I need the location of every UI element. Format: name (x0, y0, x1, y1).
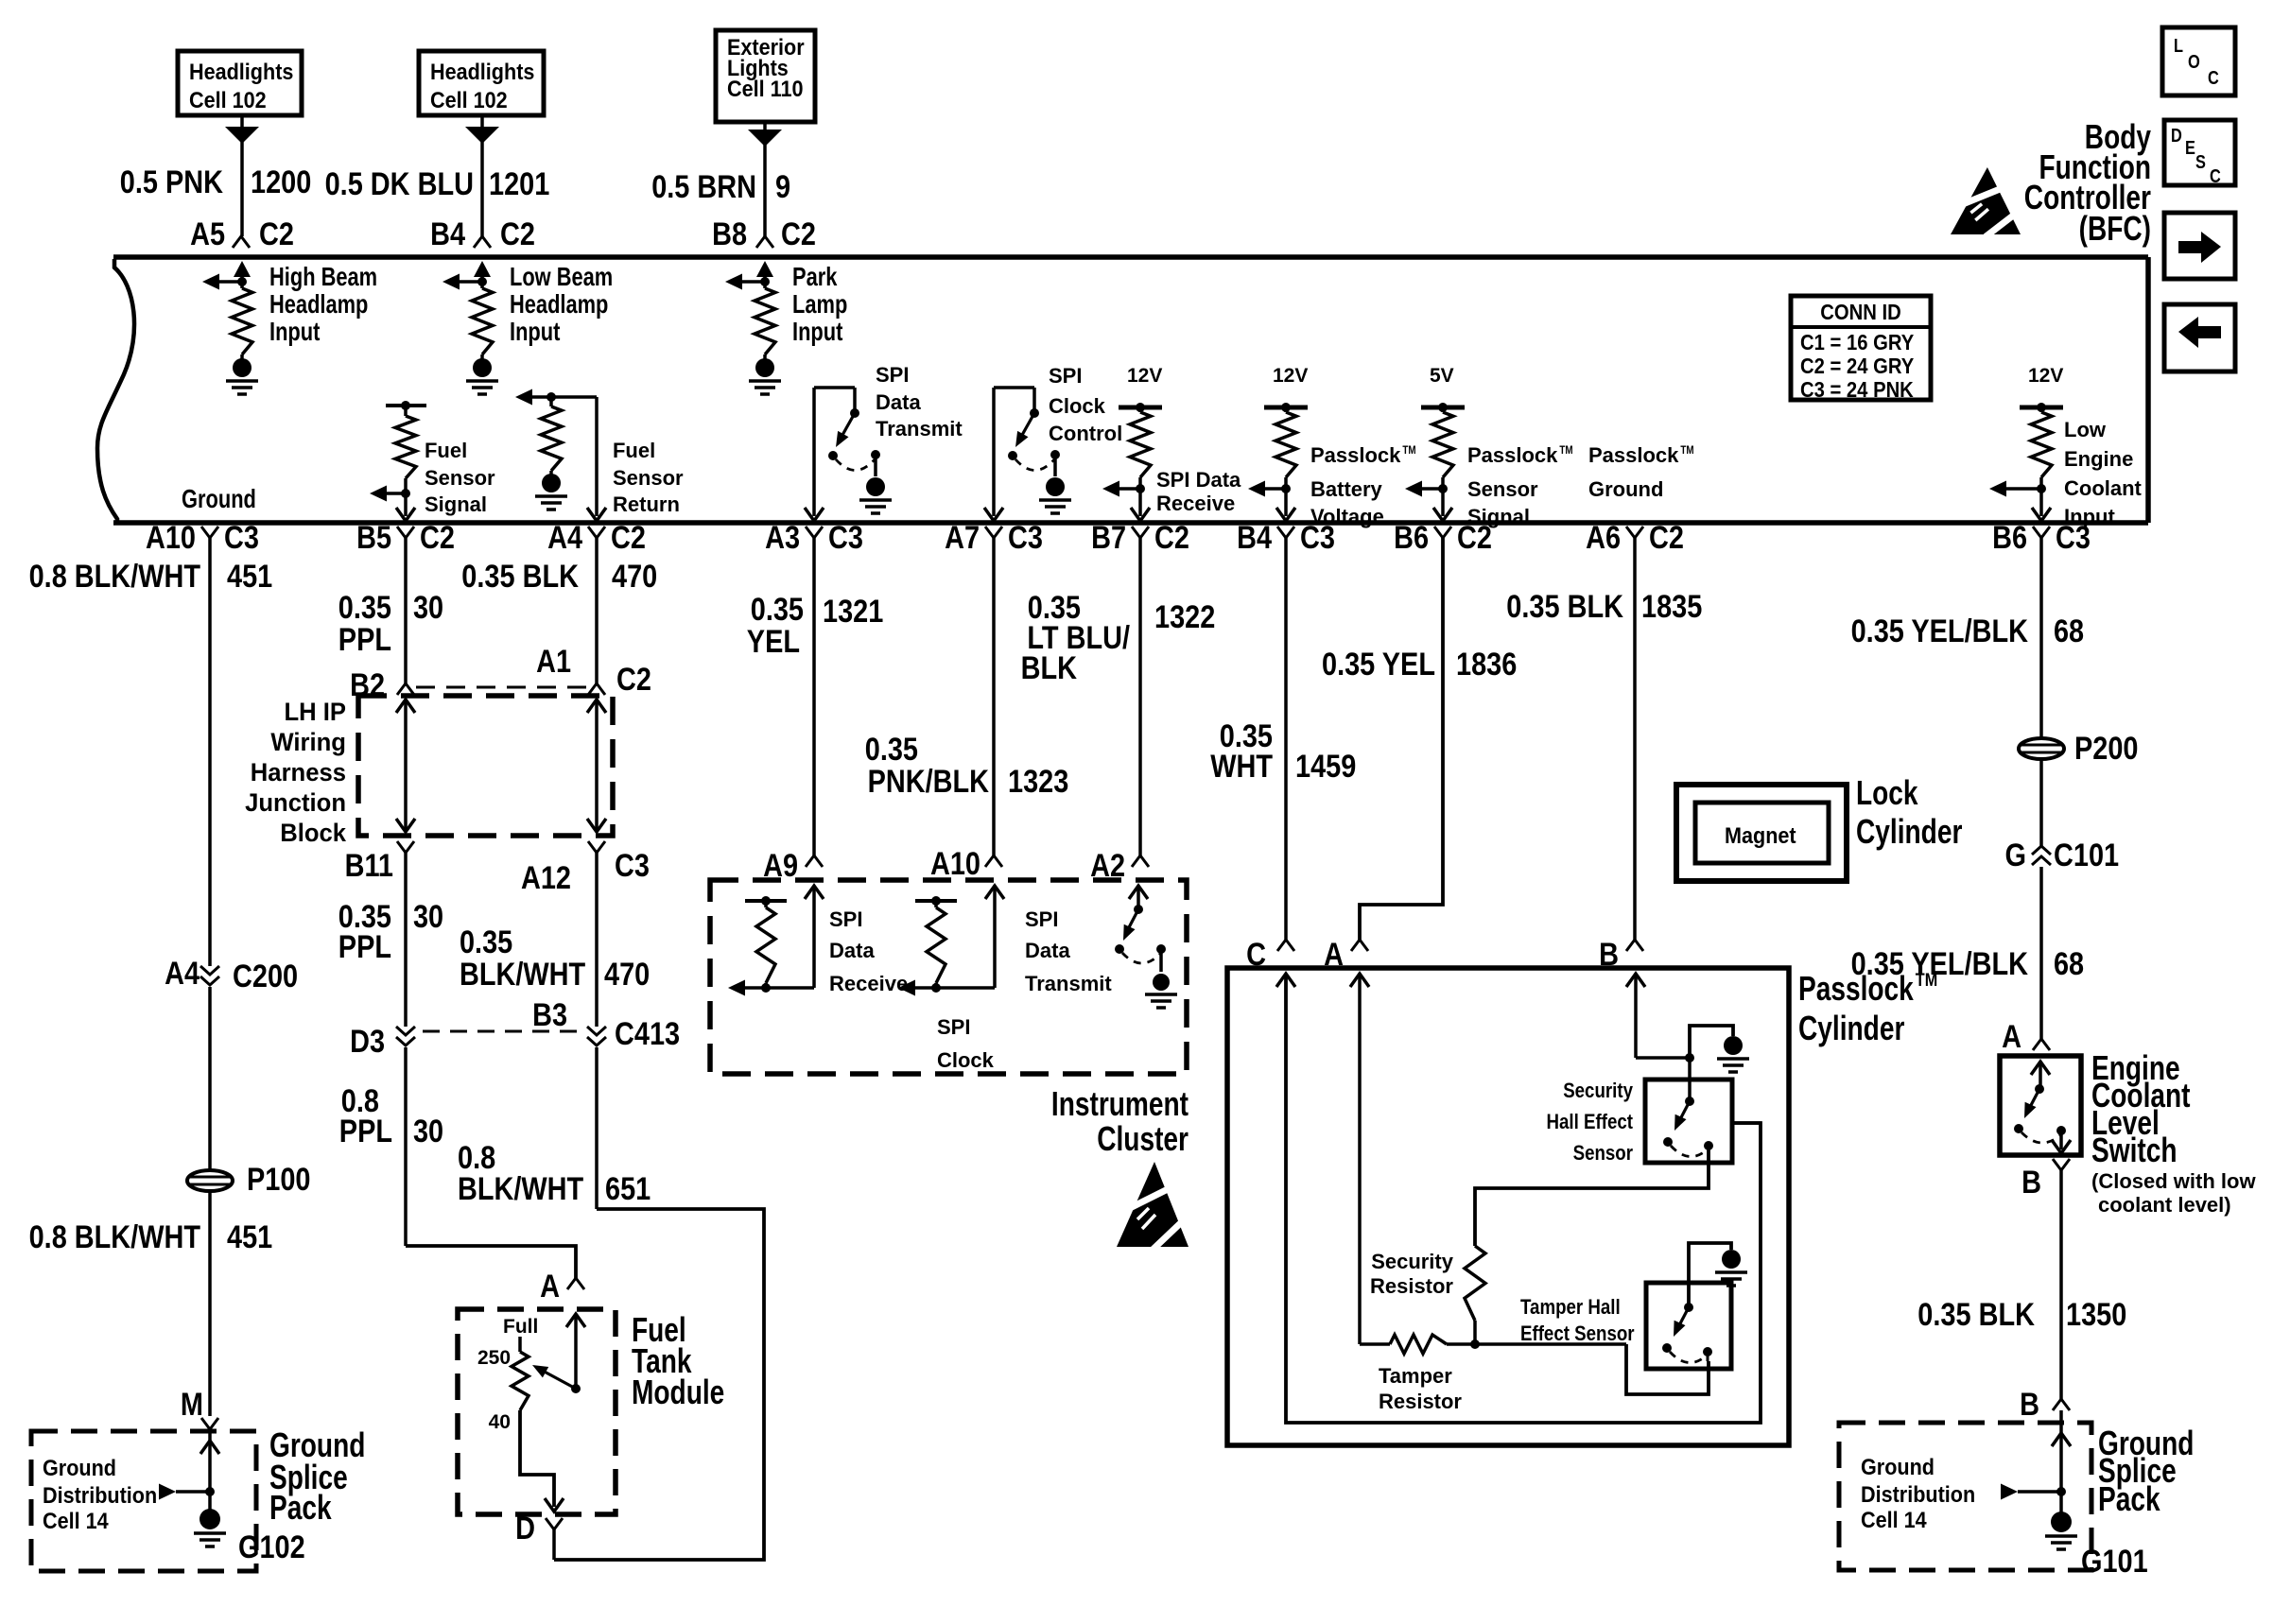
svg-text:Cell 102: Cell 102 (189, 88, 267, 113)
svg-text:C1 = 16 GRY: C1 = 16 GRY (1800, 330, 1914, 354)
svg-text:470: 470 (604, 957, 650, 993)
svg-text:B6: B6 (1992, 520, 2027, 556)
svg-text:C2: C2 (611, 520, 646, 556)
svg-text:470: 470 (612, 559, 657, 595)
svg-text:C2: C2 (616, 662, 651, 698)
svg-text:Transmit: Transmit (1025, 972, 1112, 995)
svg-text:coolant level): coolant level) (2098, 1193, 2231, 1217)
svg-text:C2: C2 (1154, 520, 1189, 556)
svg-text:Cylinder: Cylinder (1798, 1009, 1904, 1047)
svg-text:WHT: WHT (1210, 749, 1273, 785)
svg-text:PNK/BLK: PNK/BLK (868, 764, 990, 800)
svg-text:Receive: Receive (1156, 492, 1235, 515)
svg-text:Sensor: Sensor (613, 466, 684, 490)
svg-text:Pack: Pack (269, 1488, 332, 1527)
svg-text:Data: Data (829, 939, 875, 962)
svg-text:C200: C200 (233, 959, 298, 994)
svg-text:C3: C3 (1008, 520, 1043, 556)
svg-text:SPI: SPI (1049, 364, 1083, 388)
svg-text:Hall Effect: Hall Effect (1547, 1110, 1634, 1133)
svg-text:Battery: Battery (1310, 477, 1383, 501)
svg-text:Control: Control (1049, 422, 1122, 445)
svg-text:Lock: Lock (1856, 773, 1918, 812)
svg-text:Headlamp: Headlamp (510, 289, 608, 319)
svg-text:LH IP: LH IP (285, 698, 347, 726)
svg-text:12V: 12V (1273, 365, 1308, 387)
svg-text:PPL: PPL (338, 929, 391, 965)
svg-text:Cell 102: Cell 102 (430, 88, 508, 113)
svg-text:L: L (2174, 36, 2183, 57)
svg-text:Tamper: Tamper (1379, 1364, 1452, 1388)
svg-text:0.8 BLK/WHT: 0.8 BLK/WHT (29, 1219, 201, 1255)
svg-text:B4: B4 (430, 216, 465, 252)
svg-text:PPL: PPL (338, 622, 391, 658)
svg-text:Signal: Signal (425, 492, 487, 516)
svg-text:0.5 PNK: 0.5 PNK (120, 164, 224, 200)
svg-text:Cell 14: Cell 14 (1861, 1508, 1927, 1533)
svg-text:D: D (2171, 126, 2182, 147)
svg-text:Cell 110: Cell 110 (727, 77, 804, 102)
svg-text:A4: A4 (165, 956, 200, 992)
svg-text:BLK/WHT: BLK/WHT (458, 1171, 583, 1207)
svg-text:Clock: Clock (937, 1048, 995, 1072)
svg-text:Passlock: Passlock (1310, 443, 1401, 467)
svg-text:451: 451 (227, 559, 272, 595)
svg-text:Full: Full (503, 1316, 538, 1338)
svg-text:Ground: Ground (182, 484, 256, 513)
svg-text:451: 451 (227, 1219, 272, 1255)
svg-text:Harness: Harness (251, 758, 346, 786)
svg-text:A7: A7 (945, 520, 980, 556)
svg-text:0.35 YEL/BLK: 0.35 YEL/BLK (1851, 613, 2029, 649)
svg-text:Park: Park (792, 262, 838, 291)
svg-text:30: 30 (413, 899, 443, 935)
svg-text:0.35: 0.35 (751, 592, 804, 628)
svg-text:A: A (540, 1269, 560, 1304)
svg-text:B3: B3 (532, 997, 567, 1033)
svg-text:C3: C3 (224, 520, 259, 556)
svg-text:Distribution: Distribution (1861, 1482, 1975, 1508)
svg-text:S: S (2195, 152, 2206, 173)
svg-text:1350: 1350 (2066, 1297, 2126, 1333)
svg-text:Headlamp: Headlamp (269, 289, 368, 319)
svg-text:Resistor: Resistor (1370, 1274, 1453, 1298)
svg-text:B8: B8 (712, 216, 747, 252)
svg-text:SPI: SPI (876, 363, 910, 387)
svg-text:C3: C3 (1300, 520, 1335, 556)
svg-text:1321: 1321 (823, 594, 883, 630)
svg-text:12V: 12V (1127, 365, 1162, 387)
svg-text:SPI Data: SPI Data (1156, 468, 1241, 492)
svg-text:A1: A1 (536, 644, 571, 680)
svg-text:(BFC): (BFC) (2079, 209, 2151, 248)
svg-text:Cylinder: Cylinder (1856, 812, 1962, 851)
svg-text:Effect Sensor: Effect Sensor (1520, 1322, 1635, 1345)
svg-text:40: 40 (489, 1411, 511, 1433)
svg-text:1836: 1836 (1456, 647, 1517, 682)
svg-text:Instrument: Instrument (1051, 1084, 1189, 1123)
svg-text:Data: Data (1025, 939, 1070, 962)
svg-text:Resistor: Resistor (1379, 1390, 1462, 1413)
svg-text:30: 30 (413, 1114, 443, 1149)
svg-text:Security: Security (1563, 1079, 1633, 1102)
svg-text:Lamp: Lamp (792, 289, 847, 319)
svg-text:Return: Return (613, 492, 680, 516)
svg-text:Receive: Receive (829, 972, 908, 995)
svg-text:Engine: Engine (2064, 447, 2133, 471)
svg-text:(Closed with low: (Closed with low (2091, 1169, 2256, 1193)
svg-text:A3: A3 (765, 520, 800, 556)
svg-text:0.35 BLK: 0.35 BLK (1917, 1297, 2035, 1333)
svg-text:A4: A4 (547, 520, 582, 556)
svg-text:Headlights: Headlights (430, 60, 534, 85)
svg-text:Clock: Clock (1049, 394, 1106, 418)
svg-text:A10: A10 (930, 846, 980, 882)
svg-text:C3: C3 (2056, 520, 2091, 556)
svg-text:PPL: PPL (339, 1114, 392, 1149)
svg-text:Headlights: Headlights (189, 60, 293, 85)
svg-text:Input: Input (269, 317, 320, 346)
svg-text:C2: C2 (420, 520, 455, 556)
svg-text:C3: C3 (615, 848, 650, 884)
svg-text:B7: B7 (1091, 520, 1126, 556)
svg-text:CONN ID: CONN ID (1820, 300, 1901, 324)
svg-text:C2 = 24 GRY: C2 = 24 GRY (1800, 354, 1914, 378)
svg-text:Fuel: Fuel (425, 439, 467, 462)
svg-text:C2: C2 (1457, 520, 1492, 556)
svg-text:Security: Security (1371, 1250, 1454, 1273)
svg-text:1322: 1322 (1154, 599, 1215, 635)
svg-text:Ground: Ground (43, 1456, 116, 1481)
svg-text:B4: B4 (1237, 520, 1272, 556)
svg-text:Transmit: Transmit (876, 417, 963, 441)
svg-text:P100: P100 (247, 1162, 311, 1198)
svg-text:Pack: Pack (2098, 1479, 2160, 1518)
svg-text:Magnet: Magnet (1725, 823, 1796, 849)
svg-text:SPI: SPI (1025, 907, 1059, 931)
svg-text:1201: 1201 (489, 166, 549, 202)
svg-text:Low Beam: Low Beam (510, 262, 613, 291)
svg-text:Low: Low (2064, 418, 2107, 441)
svg-text:Cell 14: Cell 14 (43, 1509, 109, 1534)
svg-text:Distribution: Distribution (43, 1483, 157, 1509)
svg-text:A12: A12 (521, 860, 571, 896)
svg-text:High Beam: High Beam (269, 262, 377, 291)
svg-text:Sensor: Sensor (1573, 1141, 1634, 1165)
svg-text:Ground: Ground (1588, 477, 1663, 501)
svg-text:C2: C2 (500, 216, 535, 252)
svg-text:A6: A6 (1586, 520, 1621, 556)
svg-text:Data: Data (876, 390, 921, 414)
svg-text:0.5 DK BLU: 0.5 DK BLU (325, 166, 474, 202)
svg-text:Input: Input (510, 317, 560, 346)
svg-text:Ground: Ground (1861, 1455, 1935, 1480)
svg-text:68: 68 (2054, 613, 2084, 649)
svg-text:Switch: Switch (2091, 1131, 2178, 1169)
svg-text:0.5 BRN: 0.5 BRN (651, 169, 756, 205)
svg-text:5V: 5V (1430, 365, 1454, 387)
svg-text:C2: C2 (1649, 520, 1684, 556)
svg-text:M: M (181, 1387, 203, 1423)
svg-text:Block: Block (280, 819, 347, 847)
svg-text:Sensor: Sensor (425, 466, 495, 490)
svg-text:1200: 1200 (251, 164, 311, 200)
svg-text:A: A (2002, 1019, 2021, 1055)
svg-text:0.35 YEL/BLK: 0.35 YEL/BLK (1851, 946, 2029, 982)
svg-text:B11: B11 (345, 848, 393, 884)
svg-text:A10: A10 (146, 520, 196, 556)
svg-text:O: O (2188, 52, 2200, 73)
svg-text:Coolant: Coolant (2064, 476, 2143, 500)
svg-text:250: 250 (477, 1347, 511, 1369)
svg-text:TM: TM (1680, 443, 1693, 457)
svg-text:0.35 BLK: 0.35 BLK (1506, 589, 1623, 625)
svg-text:C: C (2210, 166, 2221, 187)
svg-text:SPI: SPI (937, 1015, 971, 1039)
svg-text:0.35 BLK: 0.35 BLK (461, 559, 579, 595)
svg-text:Fuel: Fuel (613, 439, 655, 462)
svg-text:G102: G102 (238, 1529, 305, 1565)
svg-text:1323: 1323 (1008, 764, 1068, 800)
svg-text:YEL: YEL (747, 624, 800, 660)
svg-text:0.35: 0.35 (338, 590, 391, 626)
svg-text:651: 651 (605, 1171, 651, 1207)
svg-text:Junction: Junction (245, 788, 346, 817)
svg-text:A5: A5 (190, 216, 225, 252)
svg-text:C2: C2 (259, 216, 294, 252)
svg-text:68: 68 (2054, 946, 2084, 982)
svg-text:C413: C413 (615, 1016, 680, 1052)
svg-text:C: C (2208, 68, 2219, 89)
svg-text:C101: C101 (2054, 838, 2119, 873)
svg-text:0.8 BLK/WHT: 0.8 BLK/WHT (29, 559, 201, 595)
svg-text:D3: D3 (350, 1024, 385, 1060)
svg-text:BLK/WHT: BLK/WHT (460, 957, 585, 993)
svg-text:C3: C3 (828, 520, 863, 556)
svg-text:Passlock: Passlock (1588, 443, 1679, 467)
svg-text:C2: C2 (781, 216, 816, 252)
svg-text:G: G (2005, 838, 2027, 873)
svg-text:G101: G101 (2081, 1544, 2148, 1580)
svg-text:0.35 YEL: 0.35 YEL (1322, 647, 1435, 682)
svg-text:Input: Input (792, 317, 842, 346)
svg-text:TM: TM (1402, 443, 1415, 457)
svg-text:0.35: 0.35 (460, 924, 512, 960)
svg-text:Wiring: Wiring (270, 728, 346, 756)
svg-text:D: D (515, 1511, 535, 1546)
svg-text:0.35: 0.35 (865, 732, 918, 768)
svg-text:P200: P200 (2074, 731, 2139, 767)
svg-text:B: B (2020, 1387, 2039, 1423)
svg-text:BLK: BLK (1021, 650, 1078, 686)
svg-text:Passlock: Passlock (1467, 443, 1558, 467)
svg-text:12V: 12V (2028, 365, 2063, 387)
svg-text:TM: TM (1559, 443, 1572, 457)
svg-text:Tamper Hall: Tamper Hall (1520, 1295, 1621, 1319)
svg-text:Cluster: Cluster (1097, 1119, 1189, 1158)
svg-text:C3 = 24 PNK: C3 = 24 PNK (1800, 377, 1914, 402)
svg-text:30: 30 (413, 590, 443, 626)
svg-text:SPI: SPI (829, 907, 863, 931)
svg-text:E: E (2185, 138, 2195, 159)
svg-text:B: B (2021, 1165, 2041, 1201)
svg-text:B6: B6 (1394, 520, 1429, 556)
svg-text:Module: Module (632, 1373, 724, 1411)
svg-text:1459: 1459 (1295, 749, 1356, 785)
svg-text:B5: B5 (356, 520, 391, 556)
svg-text:1835: 1835 (1641, 589, 1702, 625)
svg-text:Sensor: Sensor (1467, 477, 1538, 501)
svg-text:9: 9 (775, 169, 790, 205)
